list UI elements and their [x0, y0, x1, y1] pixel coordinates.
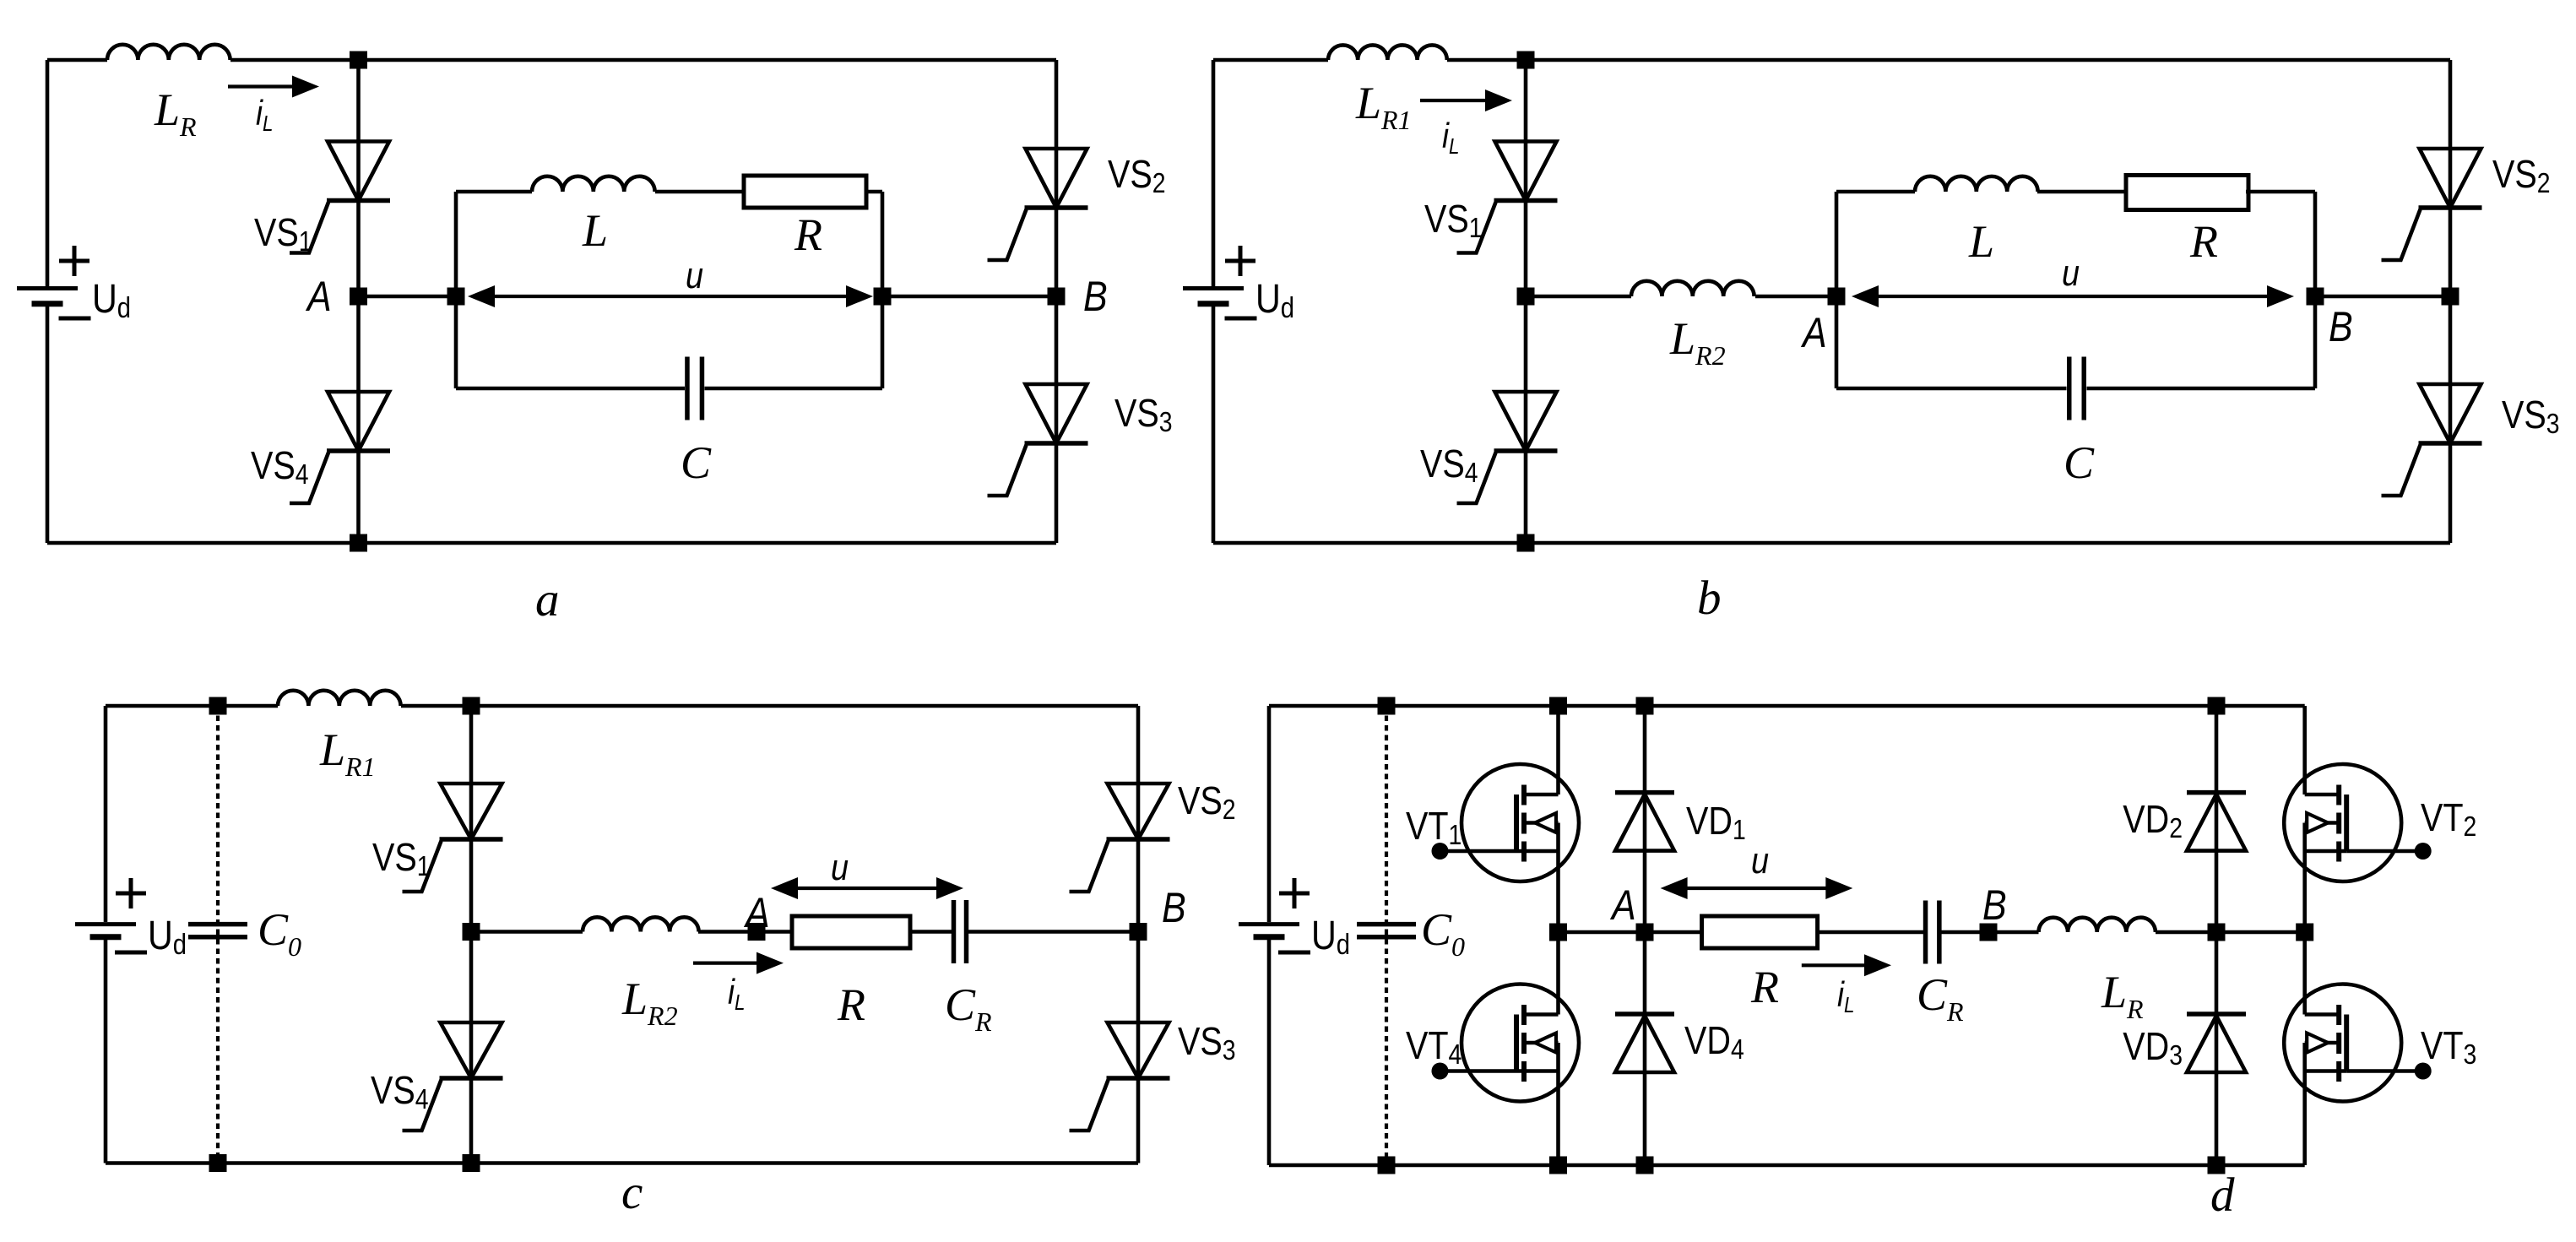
- circuit c outer loop wires: [106, 706, 1138, 1163]
- node A (circuit d): [1609, 881, 1653, 941]
- arrow iL (circuit a): [228, 76, 319, 137]
- MOSFET VT3 (circuit d): [2284, 984, 2476, 1102]
- svg-text:B: B: [1982, 881, 2007, 929]
- node top of left bridge leg (circuit b): [1517, 52, 1535, 69]
- capacitor C (circuit b): [2064, 357, 2095, 489]
- node bottom of C0 branch (circuit d): [1378, 1157, 1396, 1174]
- wire left bridge leg (circuit a): [356, 60, 361, 543]
- node B (circuit c): [1130, 884, 1186, 941]
- node bottom of VD2 branch (circuit d): [2208, 1157, 2226, 1174]
- wire middle node to LR2 (circuit c): [471, 930, 583, 934]
- MOSFET VT4 (circuit d): [1406, 984, 1579, 1102]
- node bottom of left bridge leg (circuit c): [463, 1154, 480, 1172]
- node top of C0 branch (circuit d): [1378, 697, 1396, 715]
- thyristor VS4 (circuit c): [371, 1022, 503, 1131]
- capacitor C (circuit a): [681, 357, 712, 489]
- thyristor VS1 (circuit b): [1424, 142, 1558, 253]
- arrow iL (circuit c): [693, 952, 784, 1016]
- VD1 branch wire (circuit d): [1643, 706, 1647, 1165]
- thyristor VS2 (circuit b): [2382, 149, 2551, 260]
- wire CR to node B and LR (circuit d): [1939, 930, 2039, 935]
- wire node B to right bridge leg (circuit b): [2315, 295, 2450, 299]
- node top of C0 branch (circuit c): [209, 697, 227, 715]
- svg-text:u: u: [831, 846, 849, 887]
- wire load loop to node B (circuit a): [882, 295, 1056, 299]
- capacitor C0 (circuit c): [188, 904, 301, 962]
- voltage arrow u (circuit c): [771, 846, 963, 899]
- node top of VD1 branch (circuit d): [1636, 697, 1654, 715]
- inductor LR1 (circuit c): [278, 691, 401, 782]
- thyristor VS3 (circuit c): [1070, 1020, 1236, 1131]
- svg-text:b: b: [1697, 572, 1722, 625]
- wire node A to load loop (circuit a): [359, 295, 457, 299]
- voltage arrow u (circuit b): [1852, 252, 2294, 307]
- inductor L (circuit a): [532, 176, 655, 256]
- svg-text:R: R: [794, 209, 822, 260]
- node B (circuit a): [1048, 273, 1108, 320]
- svg-text:B: B: [1162, 884, 1186, 931]
- node A (circuit c): [743, 889, 769, 941]
- dashed link wire of C0 (circuit d): [1385, 706, 1388, 1165]
- node middle of left bridge leg (circuit c): [463, 923, 480, 941]
- node B (circuit b): [2307, 288, 2353, 350]
- thyristor VS3 (circuit a): [988, 384, 1173, 496]
- capacitor C0 (circuit d): [1357, 904, 1465, 962]
- diode VD4 (circuit d): [1615, 1014, 1744, 1072]
- inductor LR2 (circuit b): [1631, 281, 1754, 371]
- thyristor VS3 (circuit b): [2382, 384, 2560, 496]
- battery Ud (circuit c): [75, 878, 187, 961]
- svg-text:R: R: [837, 979, 865, 1030]
- inductor LR2 (circuit c): [583, 917, 699, 1031]
- voltage arrow u (circuit d): [1661, 839, 1853, 899]
- node top of left bridge leg (circuit a): [350, 52, 367, 69]
- wire LR2 to node A and R (circuit c): [698, 930, 792, 934]
- wire R to CR (circuit d): [1818, 930, 1923, 935]
- svg-text:c: c: [621, 1166, 643, 1219]
- inductor L (circuit b): [1915, 176, 2038, 267]
- diode VD2 (circuit d): [2123, 793, 2246, 851]
- VT branch wires left (circuit d): [1556, 706, 1560, 1165]
- arrow iL (circuit d): [1802, 954, 1891, 1017]
- svg-text:B: B: [1083, 273, 1108, 320]
- node A (circuit a): [305, 273, 367, 320]
- middle wire A to R (circuit d): [1559, 930, 1702, 935]
- diode VD3 (circuit d): [2123, 1014, 2246, 1072]
- wire LR to VD2 branch (circuit d): [2156, 930, 2305, 935]
- node middle of VT1 branch (circuit d): [1549, 924, 1567, 941]
- voltage arrow u (circuit a): [468, 254, 873, 307]
- svg-text:L: L: [1968, 216, 1994, 267]
- node bottom of VT1 branch (circuit d): [1549, 1157, 1567, 1174]
- resistor R (circuit a): [744, 176, 866, 260]
- svg-text:A: A: [1800, 309, 1826, 356]
- load loop wires (circuit b): [1836, 192, 2315, 388]
- capacitor CR (circuit c): [945, 900, 992, 1037]
- svg-text:a: a: [535, 573, 560, 626]
- resistor R (circuit d): [1702, 916, 1818, 1012]
- capacitor CR (circuit d): [1917, 901, 1964, 1028]
- thyristor VS2 (circuit c): [1070, 779, 1236, 892]
- diode VD1 (circuit d): [1615, 793, 1746, 851]
- node bottom of VD1 branch (circuit d): [1636, 1157, 1654, 1174]
- inductor LR1 (circuit b): [1328, 45, 1447, 135]
- node right bridge leg middle (circuit b): [2442, 288, 2459, 306]
- svg-text:d: d: [2210, 1169, 2235, 1222]
- node middle of VD2 branch (circuit d): [2208, 924, 2226, 941]
- thyristor VS1 (circuit a): [254, 142, 390, 258]
- node A (circuit b): [1800, 288, 1845, 356]
- svg-text:A: A: [743, 889, 769, 936]
- node left of load loop (circuit a): [447, 288, 465, 306]
- svg-text:R: R: [1750, 962, 1779, 1012]
- node top of VT1 branch (circuit d): [1549, 697, 1567, 715]
- circuit a outer loop wires: [47, 60, 1056, 543]
- node top of VD2 branch (circuit d): [2208, 697, 2226, 715]
- thyristor VS4 (circuit a): [251, 392, 390, 503]
- svg-text:u: u: [686, 254, 703, 296]
- svg-text:u: u: [2062, 252, 2080, 293]
- node middle of left bridge leg (circuit b): [1517, 288, 1535, 306]
- wire left bridge leg (circuit b): [1524, 60, 1528, 543]
- svg-text:B: B: [2329, 303, 2353, 350]
- svg-text:C: C: [2064, 437, 2095, 488]
- MOSFET VT1 (circuit d): [1406, 764, 1579, 881]
- thyristor VS4 (circuit b): [1420, 392, 1558, 503]
- battery Ud (circuit d): [1239, 878, 1350, 961]
- node top of left bridge leg (circuit c): [463, 697, 480, 715]
- load loop wires (circuit a): [456, 192, 882, 388]
- node bottom of left bridge leg (circuit b): [1517, 534, 1535, 552]
- resistor R (circuit c): [792, 916, 910, 1030]
- node B (circuit d): [1980, 881, 2007, 941]
- svg-text:R: R: [2189, 216, 2218, 267]
- VD2 branch wire (circuit d): [2215, 706, 2219, 1165]
- VT branch wires right (circuit d): [2302, 706, 2307, 1165]
- svg-text:C: C: [681, 437, 712, 488]
- wire LR2 to node A (circuit b): [1755, 295, 1836, 299]
- svg-text:A: A: [1609, 881, 1635, 929]
- circuit b outer loop wires: [1213, 60, 2450, 543]
- node bottom of left bridge leg (circuit a): [350, 534, 367, 552]
- svg-text:u: u: [1751, 839, 1769, 881]
- resistor R (circuit b): [2126, 176, 2248, 268]
- circuit d outer wires: [1269, 706, 2305, 1165]
- MOSFET VT2 (circuit d): [2284, 764, 2476, 881]
- dashed link wire of C0 (circuit c): [216, 706, 220, 1163]
- wire middle node to LR2 (circuit b): [1526, 295, 1631, 299]
- inductor LR (circuit d): [2039, 918, 2156, 1024]
- wire CR to node B (circuit c): [968, 930, 1138, 934]
- node right of load loop (circuit a): [874, 288, 892, 306]
- node bottom of C0 branch (circuit c): [209, 1154, 227, 1172]
- thyristor VS1 (circuit c): [372, 784, 503, 892]
- battery Ud (circuit b): [1183, 246, 1294, 324]
- wire R to CR (circuit c): [910, 930, 952, 934]
- inductor LR (circuit a): [107, 45, 230, 142]
- battery Ud (circuit a): [17, 246, 131, 324]
- node middle of VT2 branch (circuit d): [2296, 924, 2313, 941]
- thyristor VS2 (circuit a): [988, 149, 1166, 260]
- svg-text:L: L: [582, 205, 608, 256]
- arrow iL (circuit b): [1420, 89, 1512, 159]
- wire left bridge leg (circuit c): [469, 706, 474, 1163]
- svg-text:A: A: [305, 273, 331, 320]
